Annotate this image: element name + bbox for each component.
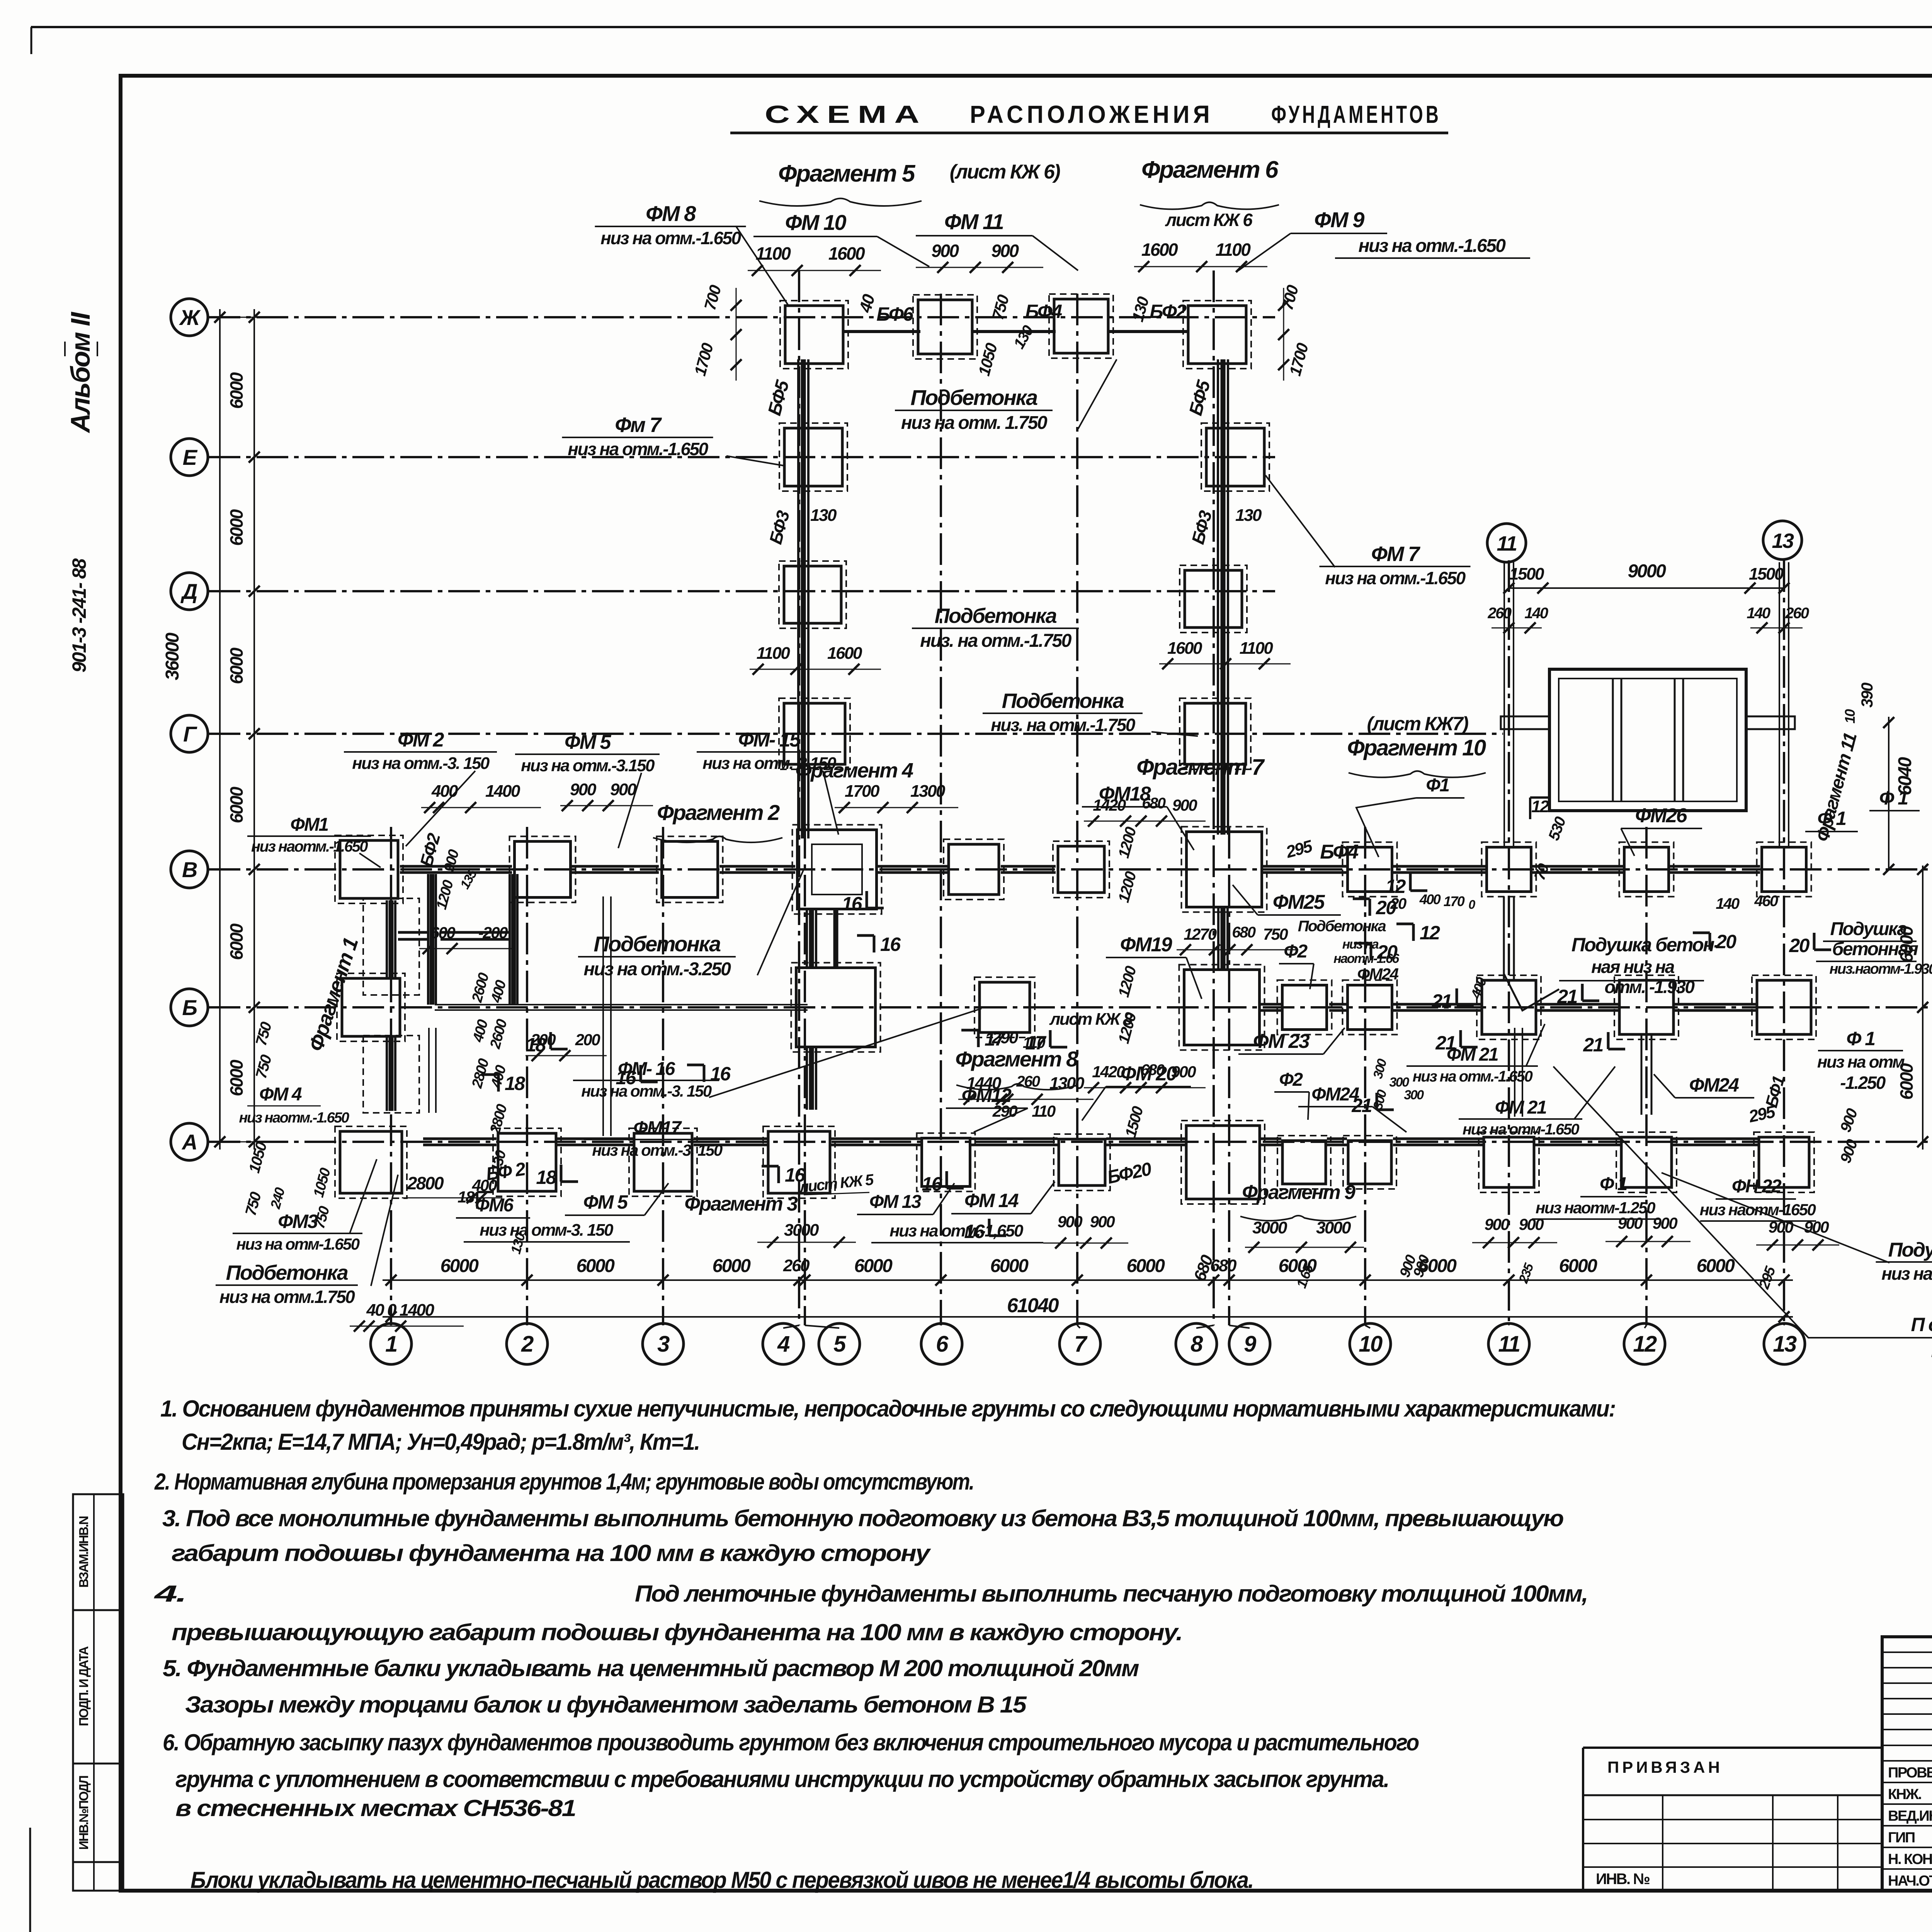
svg-text:Е: Е [183,445,198,469]
section mark 21 [1583,1032,1625,1056]
label Подбетонка -1.66 small [1298,918,1400,983]
svg-text:Подбетонка: Подбетонка [594,932,721,956]
label Под бетонка [1553,1066,1932,1361]
svg-text:низ наотм-1650: низ наотм-1650 [1700,1201,1816,1219]
svg-text:130: 130 [810,506,837,525]
foundation col2 (axis А) [493,1128,561,1196]
axis line 8 [1213,270,1215,1325]
svg-text:900: 900 [570,780,597,799]
axis bubble 12 bottom [1624,1323,1665,1364]
svg-text:БФ2: БФ2 [1150,301,1187,322]
label ФМ1 [247,815,381,867]
foundation ФМ24b (axis Б) [1614,975,1679,1039]
dims 1700 1300 [835,782,958,813]
svg-text:16: 16 [785,1164,806,1186]
right dimension 6040/390 [1842,683,1915,875]
label низ на отм-3.150 (ФМ6 ФМ5) [464,1221,630,1242]
axis bubble А left [171,1123,216,1160]
foundation ФМ2 (axis В) [335,835,403,903]
svg-text:6000: 6000 [1559,1256,1598,1276]
svg-text:1500: 1500 [1509,565,1544,583]
svg-text:12: 12 [1420,922,1440,944]
label Ф1 -1.250 bottomA [1532,1174,1660,1219]
note line 13 [175,1795,575,1821]
axis line А [209,1141,1932,1143]
svg-text:ФУНДАМЕНТОВ: ФУНДАМЕНТОВ [1271,100,1441,128]
svg-text:Фрагмент 4: Фрагмент 4 [795,759,913,782]
tank right flange [1746,716,1795,729]
svg-text:6000: 6000 [226,786,247,823]
foundation col10 sq (axis Б) [1343,980,1397,1035]
label лист КЖ5 [798,1171,875,1196]
dims 1600 1100 (Д strip right) [1159,639,1291,669]
label Фрагмент 3 [684,1193,856,1248]
label БФ2 left bottom [485,1159,527,1185]
axis line 13 [1783,560,1785,1325]
section mark 20 [1353,897,1396,918]
axis line 10 [1364,827,1366,1325]
rotated 1200 x4 [1115,825,1140,1046]
label лист КЖ8 mid [1049,1010,1133,1029]
foundation col10s (axis А) [1343,1136,1396,1189]
rotated dim 130 БФ2 [1128,295,1187,324]
svg-text:низ на отм.1.750: низ на отм.1.750 [219,1287,355,1307]
rotated dims 2600 stack [487,978,510,1174]
label 2800 400 [402,1173,502,1203]
section mark 21 [1431,988,1474,1012]
left dimension 36000 total [162,309,225,1150]
section mark 12 [1385,874,1427,897]
wall col 13 upper [1779,562,1789,848]
svg-text:16: 16 [880,934,901,955]
foundation ФМ13 (axis А) [1054,1134,1110,1190]
dims 1050 750 col1 [310,1166,333,1230]
axis bubble 13 bottom [1764,1323,1805,1364]
svg-text:900: 900 [1519,1215,1544,1233]
dims 400 1400 [421,782,541,813]
foundation col2 (axis В) [510,837,576,903]
svg-text:1: 1 [385,1332,397,1357]
axis bubble Ж left [171,299,216,336]
beams axis Б left [435,1005,808,1010]
dim 900 900 c11-12 [1605,1214,1690,1247]
svg-text:10: 10 [1359,1332,1383,1357]
svg-text:низ на отм.-1.650: низ на отм.-1.650 [568,439,708,459]
dims 20 140 460 20 [1390,891,1778,912]
section mark 20 [1693,931,1736,952]
svg-text:низ на отм-1.650: низ на отм-1.650 [236,1235,359,1253]
section mark 18 [481,1073,525,1094]
svg-text:680: 680 [1142,795,1165,812]
right dimension line 6000/6000 [1896,864,1928,1150]
svg-text:ФМ 21: ФМ 21 [1495,1097,1546,1118]
svg-text:Подбетонка: Подбетонка [1298,918,1386,935]
svg-text:превышающующую габарит подошвы: превышающующую габарит подошвы фунданент… [172,1619,1182,1645]
axis line 2 [526,827,528,1325]
bottom dimension line 61040 total [383,1294,1793,1322]
label ФМ4 left [239,1084,349,1126]
svg-text:ФМ19: ФМ19 [1120,934,1172,956]
wall БФ5 right strip [1218,359,1228,835]
label низ на отм.-1,650 bottom [871,1221,1043,1243]
sheet outer left bottom edge [29,1828,31,1932]
svg-text:ФМ 9: ФМ 9 [1314,207,1364,232]
foundation ФМ18 big (axis В) [1182,827,1267,912]
svg-text:Сн=2кпа; Е=14,7 МПА; Ун=0,49ра: Сн=2кпа; Е=14,7 МПА; Ун=0,49рад; р=1.8т/… [182,1429,699,1455]
note line 5 [172,1540,931,1566]
axis line 3 [662,827,664,1325]
label ФМ6 [456,1195,530,1218]
svg-text:наотм-1.66: наотм-1.66 [1333,951,1400,966]
svg-text:3000: 3000 [1252,1218,1287,1237]
svg-text:низ на отм.-1.650: низ на отм.-1.650 [1325,568,1466,588]
label ФМ 20 [1082,1063,1191,1121]
Ф1 label right [1869,787,1920,811]
svg-text:-1.250: -1.250 [1840,1073,1886,1093]
svg-text:260: 260 [1487,605,1511,622]
label 295 БФ4 [1284,837,1359,863]
attachment table [1583,1748,1882,1891]
foundation ФМ7 left (axis Е) [779,423,847,491]
svg-text:Ф1: Ф1 [1426,775,1449,796]
svg-text:низ на отм.-3. 150: низ на отм.-3. 150 [592,1141,723,1159]
section mark 21 [1351,1093,1394,1116]
svg-text:12: 12 [1531,797,1549,816]
svg-text:ФМ 23: ФМ 23 [1253,1030,1310,1053]
svg-text:ПРИВЯЗАН: ПРИВЯЗАН [1607,1758,1723,1776]
svg-text:Фрагмент 10: Фрагмент 10 [1347,735,1486,760]
svg-text:низ на: низ на [1342,937,1379,952]
rotated dims 700 1700 right of ФМ9 [1278,283,1312,381]
axis bubble 8 bottom [1176,1323,1217,1364]
dims 400 label [1468,975,1490,1001]
note line 3 [154,1469,974,1495]
foundation Ф2b (axis А) [1277,1136,1331,1189]
section mark 16 [687,1063,731,1085]
axis bubble В left [171,851,216,888]
svg-text:1300: 1300 [910,782,946,801]
foundation ФМ9 [1183,301,1251,369]
axis line 1 [390,827,392,1325]
label 295 c13 [1756,1264,1779,1291]
svg-text:ПОДП. И ДАТА: ПОДП. И ДАТА [77,1646,91,1726]
wall col 11 upper [1504,562,1514,848]
svg-text:1100: 1100 [1240,639,1274,658]
svg-text:2. Нормативная глубина промерз: 2. Нормативная глубина промерзания грунт… [154,1469,974,1495]
svg-text:Подушка бетон-: Подушка бетон- [1571,934,1720,956]
label ФМ7 right [1265,475,1471,588]
foundation col7 small (axis В) [1053,841,1109,898]
beam БФ2 axis Ж [1107,330,1189,333]
label ФМ19 [1106,934,1202,999]
label ФМ 8 [595,201,789,305]
svg-text:13: 13 [1773,1332,1797,1357]
foundation ФМ26 (axis В) [1619,842,1674,897]
mid walls В-Б-А [429,896,1651,1136]
svg-text:В: В [182,857,197,882]
foundation right strip (axis Г) [1180,698,1251,769]
svg-text:Ф2: Ф2 [1284,941,1308,962]
axis bubble 6 bottom [921,1323,962,1364]
svg-text:ФМ 8: ФМ 8 [646,201,696,226]
label Ф2 b [1274,1070,1309,1120]
svg-text:НАЧ.ОТД: НАЧ.ОТД [1888,1873,1932,1889]
svg-text:20: 20 [1390,895,1406,912]
rotated dims 40 БФ6 [855,292,914,325]
svg-text:Ф 1: Ф 1 [1879,787,1908,809]
svg-text:ФМ3: ФМ3 [278,1211,318,1232]
svg-text:6: 6 [936,1332,949,1357]
svg-text:6000: 6000 [854,1256,893,1276]
axis bubble 1 bottom [371,1323,412,1364]
foundation right strip (axis Д) [1180,565,1247,633]
svg-text:Фрагмент 2: Фрагмент 2 [657,800,780,825]
svg-text:БФ6: БФ6 [876,303,914,325]
foundation ФМ-17 sq (axis Б) [975,977,1035,1037]
svg-text:3000: 3000 [1316,1218,1351,1237]
label Подушка бетонная right [1816,919,1932,977]
note line 4 [162,1505,1563,1531]
svg-text:низ наотм.-1.650: низ наотм.-1.650 [251,838,368,855]
axis bubble 3 bottom [643,1323,684,1364]
axis bubble 10 bottom [1350,1323,1391,1364]
left dimension line 6000 bays [216,309,270,1150]
rotated БФ2 south cluster [416,831,480,911]
label Ф2 [1279,941,1314,989]
svg-text:Б: Б [182,995,197,1020]
label ФМ 5 bottom [565,1183,668,1215]
axis line 4 [798,270,800,1325]
wall БФ5 left strip [798,359,808,838]
title block outer [1882,1637,1932,1891]
label Подбетонка -1.750 (Г) [983,689,1198,736]
foundation ФМ-16 big (axis Б) [791,963,881,1052]
foundation ФМ5b (axis А) [629,1128,697,1196]
svg-text:ФМ 13: ФМ 13 [869,1192,922,1212]
svg-text:8: 8 [1190,1332,1203,1357]
svg-text:Зазоры между торцами балок и: Зазоры между торцами балок и фундаментом… [185,1692,1027,1718]
svg-text:6000: 6000 [226,509,247,546]
svg-text:1700: 1700 [845,782,880,801]
label ФМ17 [584,1118,730,1159]
label Фрагмент 6 [1140,156,1279,230]
foundation col3 (axis В) [657,837,723,903]
label -1.250 right [1840,1073,1886,1093]
label ФМ26 [1621,804,1702,856]
bottom dimension line 6000 row [383,1256,1793,1286]
rotated dims 750 750 left [242,1020,288,1218]
svg-text:ФМ 14: ФМ 14 [964,1190,1019,1211]
svg-text:Фрагмент 5: Фрагмент 5 [778,160,916,187]
label 165 [1293,1262,1316,1290]
svg-text:Г: Г [183,722,197,746]
foundation col4 (axis А) [763,1126,835,1198]
svg-text:низ на отм-3. 150: низ на отм-3. 150 [480,1221,614,1240]
note line 2 [182,1429,699,1455]
section mark 16 [857,934,901,955]
svg-text:400: 400 [431,782,458,801]
foundation col13 (axis В) [1757,842,1811,897]
axis bubble Г left [171,715,216,752]
svg-text:ФМ 21: ФМ 21 [1447,1044,1498,1065]
section mark 18 [526,1032,568,1056]
svg-text:ФМ 11: ФМ 11 [944,209,1003,234]
svg-text:6000: 6000 [1127,1256,1165,1276]
svg-text:ФМ 10: ФМ 10 [785,210,847,235]
svg-text:3: 3 [657,1332,670,1357]
svg-text:260: 260 [783,1256,810,1275]
dims 290 110 (17) [992,1028,1045,1051]
foundation big col8 (axis А) [1181,1121,1265,1204]
dims 900 900 (ФМ5) [560,780,653,811]
axis line 11 [1508,560,1510,1325]
svg-text:низ на отм-1.650: низ на отм-1.650 [1463,1121,1579,1138]
svg-text:18: 18 [536,1167,556,1188]
label ФМ25 [1233,885,1341,915]
svg-text:низ на отм.-1,650: низ на отм.-1,650 [889,1221,1024,1240]
dims 290 110 b [992,1102,1056,1120]
svg-text:низ на отм. 1.750: низ на отм. 1.750 [901,413,1048,433]
section mark 3/16 bottom [762,1164,806,1186]
axis line 6 [940,294,942,1325]
foundation left strip (axis Д) [779,561,846,628]
svg-text:140: 140 [1524,605,1548,622]
note line 10 [185,1692,1027,1718]
axis bubble Е left [171,439,216,476]
rotated dims 700 1700 left of ФМ8 [690,283,742,381]
left margin label Альбом II [65,311,97,433]
section mark 12 [1396,922,1440,944]
dims 1270 680 750 [1177,924,1298,955]
fragment 11 rotated label [1812,731,1861,844]
svg-text:16: 16 [710,1063,731,1085]
label Подбетонка (верх) [895,359,1117,433]
svg-text:750: 750 [1263,925,1288,943]
svg-text:ФМ- 15: ФМ- 15 [738,729,801,751]
svg-text:900: 900 [1172,796,1197,814]
axis line В [209,868,1932,871]
label Фрагмент 10 [1347,713,1486,777]
label 235 [1516,1261,1537,1286]
tank left flange [1501,716,1549,729]
svg-text:Ж: Ж [179,305,201,330]
svg-text:ГИП: ГИП [1888,1830,1915,1846]
svg-text:ФМ12: ФМ12 [962,1085,1012,1106]
svg-text:61040: 61040 [1007,1294,1059,1317]
svg-text:низ.наотм-1.930: низ.наотм-1.930 [1829,961,1932,977]
left cluster walls [363,874,517,1113]
svg-text:ВЕД.ИНЖ: ВЕД.ИНЖ [1888,1808,1932,1824]
dims 1420 680 900 (А) [1084,1061,1206,1093]
foundation ФМ25 sq (axis В) [1343,842,1397,897]
svg-text:290: 290 [992,1028,1019,1047]
svg-text:Фм 7: Фм 7 [615,413,662,437]
svg-text:лист КЖ 6: лист КЖ 6 [1165,210,1253,230]
svg-text:ВЗАМ.ИНВ.N: ВЗАМ.ИНВ.N [77,1516,91,1588]
svg-text:-200: -200 [478,923,508,942]
svg-text:ИНВ. №: ИНВ. № [1596,1871,1650,1888]
svg-text:12: 12 [1385,876,1406,897]
svg-text:ФМ 5: ФМ 5 [583,1191,629,1213]
svg-text:12: 12 [1633,1332,1657,1357]
label ФМ 23 [1238,1028,1345,1054]
svg-text:ФМ26: ФМ26 [1635,804,1688,827]
label ФМ24 [1298,1084,1406,1132]
svg-text:40 0 1400: 40 0 1400 [366,1301,434,1320]
note line 8 [172,1619,1182,1645]
svg-text:БФ4: БФ4 [1320,841,1359,863]
label ФМ-16 [573,1009,981,1100]
svg-text:низ на отм.-1.750: низ на отм.-1.750 [1881,1264,1932,1284]
section mark 16 [964,1219,1006,1242]
svg-text:(лист КЖ7): (лист КЖ7) [1367,713,1468,735]
label Подушка бетонная center [1504,934,1720,1010]
svg-text:170: 170 [1444,893,1465,909]
svg-text:6000: 6000 [713,1256,751,1276]
svg-text:460: 460 [1754,893,1778,910]
svg-text:16: 16 [922,1173,942,1195]
axis line Ж [209,316,1275,318]
svg-text:600: 600 [430,923,456,942]
rotated 300 stack [1371,1057,1424,1111]
svg-text:ИНВ.№ПОДЛ: ИНВ.№ПОДЛ [77,1776,91,1850]
svg-text:18: 18 [505,1073,525,1094]
label ФМ24 r [1654,1074,1754,1098]
beams axis В right БФ4 [1263,866,1760,872]
foundation ФМ10 square [913,295,977,359]
label ФМ5 [515,731,660,848]
svg-text:200: 200 [575,1031,600,1049]
svg-text:5. Фундаментные балки укладыва: 5. Фундаментные балки укладывать на цеме… [163,1655,1139,1681]
label ФМ 10 [753,210,929,267]
label ФМ 14 [951,1182,1055,1214]
axis line Е [209,456,1275,458]
svg-text:21: 21 [1431,990,1451,1012]
axis bubble 13 top [1763,521,1802,560]
title block narrow rows [1882,1652,1932,1761]
svg-text:140: 140 [1747,605,1770,622]
svg-text:ФМ 5: ФМ 5 [565,731,611,753]
label ФМ21 [1406,1024,1545,1085]
sheet outer top edge [31,27,1932,54]
label Фрагмент 9 [1240,1181,1364,1253]
dim 900 900 c13 [1756,1218,1839,1250]
label Подбетонка низ.-1.750 (mid strips) [912,604,1079,651]
svg-text:низ на отм.-1.650: низ на отм.-1.650 [600,228,741,248]
svg-text:680: 680 [1232,924,1255,941]
beams axis В left [400,866,1056,872]
left margin stamp boxes [73,1494,123,1891]
label ФМ 7 left [562,413,784,466]
svg-text:1100: 1100 [756,243,791,264]
foundation col1 (axis Б) [337,973,405,1041]
rotated 900 900 c13 [1837,1106,1861,1165]
svg-text:900: 900 [1090,1213,1115,1231]
label ФН22 [1700,1176,1816,1221]
svg-text:900: 900 [1485,1215,1510,1233]
label 680 bottom [1190,1252,1217,1284]
label Фрагмент 5 [759,160,1060,206]
main title СХЕМА РАСПОЛОЖЕНИЯ ФУНДАМЕНТОВ [730,100,1448,133]
section mark 18 [536,1165,578,1188]
foundation ФМ11 square [1049,294,1113,358]
title block person rows [1882,1763,1932,1889]
label 900 900 col11 [1396,1253,1433,1279]
svg-text:11: 11 [1497,532,1517,555]
axis bubble 11 bottom [1488,1323,1529,1364]
label Фрагмент 8 [955,1047,1078,1090]
svg-text:1. Основанием фундаментов прин: 1. Основанием фундаментов приняты сухие … [160,1396,1615,1422]
